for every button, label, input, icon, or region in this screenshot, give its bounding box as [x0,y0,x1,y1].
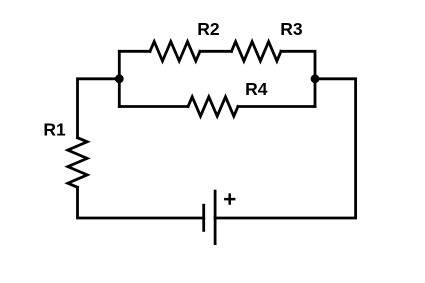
battery BT1 positive plate [214,191,217,244]
resistor R3 [232,42,282,61]
wire top branch middle segment [200,50,232,53]
wire bottom branch right segment [238,105,315,108]
wire top branch right segment down right vertical [281,51,315,106]
resistor R4 [188,97,238,116]
plus polarity mark [224,193,235,204]
svg-text:R4: R4 [245,79,268,99]
resistor R2 [150,42,200,61]
wire top branch left segment [119,50,150,53]
svg-text:R2: R2 [197,19,220,39]
battery BT1 negative plate [202,205,205,230]
wire left parallel vertical [118,51,121,106]
wire battery positive to right rail up to node B [215,79,356,218]
node A junction dot [115,74,124,83]
wire left rail: node A to R1 top [78,79,120,138]
wire R1 bottom to battery negative [78,187,204,218]
svg-text:R3: R3 [280,19,303,39]
resistor R1 [68,138,87,188]
wire bottom branch left segment [119,105,188,108]
svg-text:R1: R1 [43,120,66,140]
node B junction dot [311,74,320,83]
